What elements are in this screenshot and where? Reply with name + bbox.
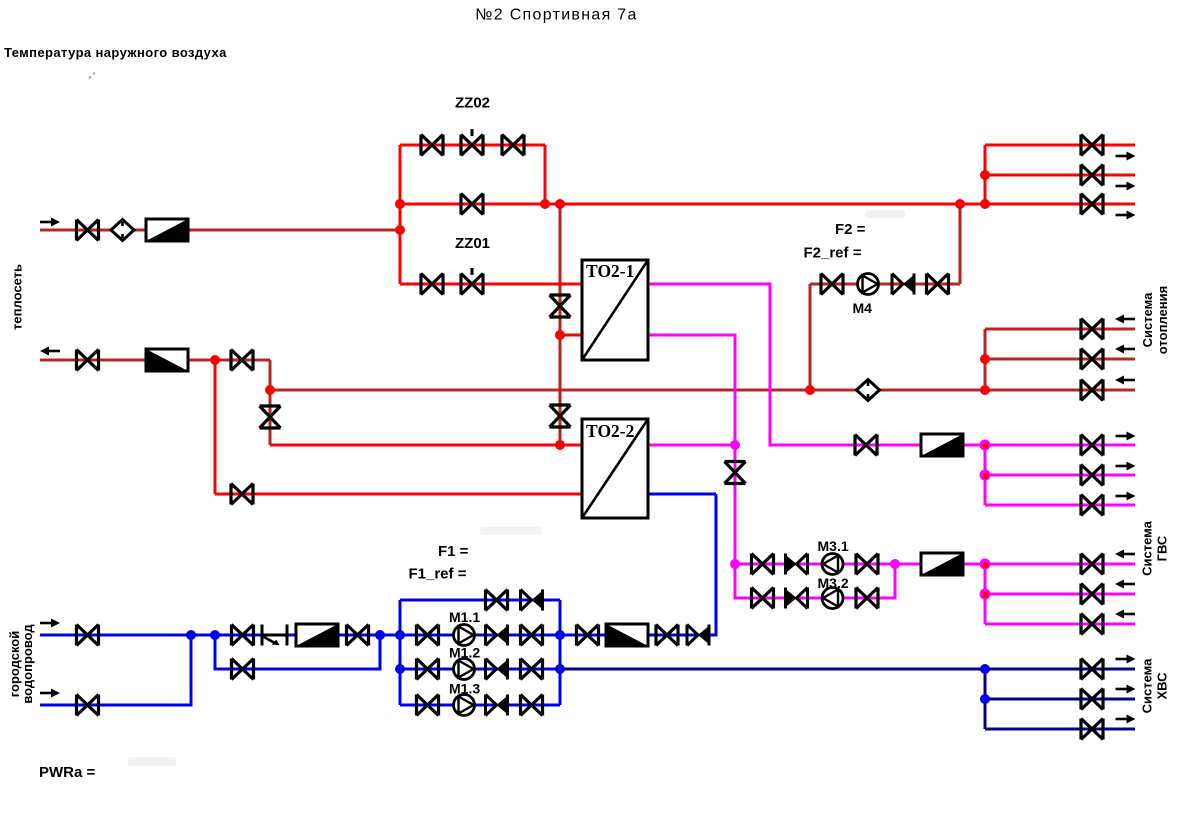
svg-text:Система: Система [1140, 520, 1155, 575]
label городской водопровод [7, 624, 35, 704]
valve riser x=560 lower [550, 405, 571, 427]
svg-text:ХВС: ХВС [1155, 672, 1170, 700]
arrow ХВС out 2 [1116, 685, 1136, 694]
node ГВС return manifold mid [980, 589, 991, 600]
wire M3.2 row y=598 [735, 564, 895, 598]
node M4 riser bottom [805, 385, 815, 395]
valve M4 discharge [927, 274, 949, 295]
meter diamond return header [857, 380, 880, 401]
check valve F1 outlet [687, 625, 711, 646]
wire M1.3 row y=705 [400, 704, 560, 707]
node ГВС supply manifold top [980, 440, 991, 451]
valve M1.3 suction [417, 695, 439, 716]
node ZZ riser / supply [395, 199, 405, 209]
valve city water inlet 2 [77, 695, 99, 716]
node ZZ02 join [540, 199, 550, 209]
valve main supply [461, 194, 483, 215]
wire теплосеть return y=360 [40, 359, 270, 362]
wire heating return branch y=359 [985, 358, 1135, 361]
svg-text:M1.2: M1.2 [449, 645, 480, 661]
valve M3.2 left [752, 588, 774, 609]
valve M3.1 right [856, 554, 878, 575]
wire TO2-2 outlet y=445 [648, 444, 735, 447]
svg-text:№2 Спортивная 7а: №2 Спортивная 7а [475, 7, 637, 24]
wire M3.1 row y=564 [735, 563, 921, 566]
wire ГВС return branch y=594 [985, 593, 1135, 596]
arrow heating return in 1 [1115, 315, 1135, 324]
svg-text:F2 =: F2 = [835, 221, 866, 238]
arrow ГВС supply out 3 [1116, 492, 1136, 501]
node return filter [210, 355, 220, 365]
arrow ГВС return in 3 [1115, 610, 1135, 619]
node M3 suction header [730, 559, 740, 569]
wire M4 branch y=284 [810, 283, 960, 286]
valve ХВС branch 2 [1081, 689, 1103, 710]
valve ZZ02 middle [461, 129, 483, 156]
valve M3.2 right [856, 588, 878, 609]
heat exchanger TO2-1 [582, 260, 648, 360]
node ZZ riser / input [395, 225, 405, 235]
valve ГВС supply branch 1 [1081, 435, 1103, 456]
check valve M1.2 [486, 659, 510, 680]
valve after filter [347, 625, 369, 646]
svg-text:F2_ref =: F2_ref = [804, 245, 862, 262]
flow sensor city water [262, 625, 287, 646]
wire ГВС return branch y=624 [985, 623, 1135, 626]
node ХВС manifold mid [980, 694, 990, 704]
node TO2-1 lower inlet [555, 330, 565, 340]
svg-text:F1 =: F1 = [438, 543, 469, 560]
valve before flow sensor [232, 625, 254, 646]
valve F1 outlet [577, 625, 599, 646]
node return header start [265, 385, 275, 395]
node city water join [186, 630, 196, 640]
node return manifold mid [980, 354, 990, 364]
node bypass start [210, 630, 220, 640]
pump M1.1 [454, 625, 475, 646]
wire ХВС branch y=699 [985, 698, 1135, 701]
pump M3.1 [822, 554, 843, 575]
wire теплосеть supply input y=230 [40, 229, 400, 232]
node F1 right riser y=669 [555, 664, 565, 674]
wire city water input y=635 [40, 634, 400, 637]
heat exchanger TO2-2 [582, 419, 648, 518]
valve ГВС supply branch 2 [1081, 465, 1103, 486]
arrow heating return in 2 [1115, 345, 1135, 354]
svg-text:M1.3: M1.3 [449, 681, 480, 697]
valve M3.1 left [752, 554, 774, 575]
valve M1.2 suction [417, 659, 439, 680]
wire M4 riser x=810 [809, 284, 812, 390]
node F1 left riser y=635 [395, 630, 405, 640]
pump M1.2 [454, 659, 475, 680]
ghost marks [89, 72, 96, 79]
wire heating supply manifold riser x=985 [984, 145, 987, 204]
wire M1.2 row y=669 [400, 668, 560, 671]
valve branch y=494 [231, 484, 253, 505]
wire ГВС supply branch y=505 [985, 504, 1135, 507]
meter diamond теплосеть supply [111, 220, 134, 241]
valve riser x=270 [260, 406, 281, 428]
node M4 riser top [955, 199, 965, 209]
arrow ГВС return in 1 [1115, 550, 1135, 559]
valve теплосеть return outlet [77, 350, 99, 371]
pump M1.3 [454, 695, 475, 716]
svg-text:M3.1: M3.1 [818, 538, 849, 554]
arrow heating supply out 2 [1116, 182, 1136, 191]
valve ZZ01 left [421, 274, 443, 295]
wire ГВС return manifold riser x=985 [984, 564, 987, 624]
node bypass end [375, 630, 385, 640]
node TO2-2 outlet join [730, 440, 740, 450]
valve ГВС supply y=445 [855, 435, 877, 456]
valve after F1 filter [656, 625, 678, 646]
arrow flow in city water 2 [40, 689, 60, 698]
wire TO2-1 lower outlet y=335 riser x=735 [648, 335, 735, 564]
svg-text:Система: Система [1140, 292, 1155, 347]
wire ХВС branch y=729 [985, 728, 1135, 731]
arrow flow in city water 1 [40, 619, 60, 628]
valve ХВС branch 1 [1081, 659, 1103, 680]
filter теплосеть return [146, 349, 188, 371]
arrow ГВС return in 2 [1115, 580, 1135, 589]
arrow ХВС out 1 [1116, 655, 1136, 664]
wire ZZ01 branch y=284 to TO2-1 [400, 283, 582, 286]
valve heating return branch 3 [1081, 380, 1103, 401]
valve heating supply branch 1 [1081, 135, 1103, 156]
node ГВС supply manifold mid [980, 470, 991, 481]
wire M1.1 row y=635 [400, 634, 560, 637]
valve heating supply branch 2 [1081, 165, 1103, 186]
valve ГВС return branch 2 [1081, 584, 1103, 605]
check valve M3.2 [784, 588, 808, 609]
wire ZZ02 bypass branch y=145 [400, 144, 545, 147]
pump M3.2 [822, 588, 843, 609]
check valve F1 top row [521, 590, 545, 611]
valve ZZ01 right [461, 268, 483, 295]
label Система ХВС [1140, 658, 1170, 713]
node supply manifold mid [980, 170, 990, 180]
svg-text:Температура наружного воздуха: Температура наружного воздуха [4, 45, 227, 60]
wire ZZ riser x=545 [544, 145, 547, 204]
wire F1 left riser x=400 [399, 600, 402, 705]
wire ГВС supply branch y=475 [985, 474, 1135, 477]
valve M1.1 discharge [521, 625, 543, 646]
pump M4 [858, 274, 879, 295]
arrow ГВС supply out 2 [1116, 462, 1136, 471]
wire F1 right riser x=560 [559, 600, 562, 705]
wire heating supply branch y=204 [985, 203, 1135, 206]
valve ZZ02 left [421, 135, 443, 156]
node F1 left riser y=669 [395, 664, 405, 674]
arrow flow out теплосеть return [40, 347, 60, 356]
label теплосеть [10, 264, 25, 330]
wire heating return branch y=329 [985, 328, 1135, 331]
wire riser x=215 [214, 360, 217, 494]
arrow heating supply out 1 [1116, 152, 1136, 161]
wire TO2-2 cold inlet y=494 [648, 493, 716, 496]
wire ГВС supply filter to manifold y=445 [963, 444, 985, 447]
svg-text:ТО2-1: ТО2-1 [586, 261, 634, 281]
arrow heating return in 3 [1115, 376, 1135, 385]
svg-text:M4: M4 [853, 300, 873, 316]
arrow heating supply out 3 [1116, 211, 1136, 220]
wire ХВС manifold riser x=985 [984, 669, 987, 729]
wire ГВС return filter to manifold y=564 [963, 563, 985, 566]
wire F1 outlet y=635 to riser x=716 [560, 494, 716, 635]
check valve M1.3 [486, 695, 510, 716]
svg-text:M3.2: M3.2 [818, 575, 849, 591]
svg-text:ZZ01: ZZ01 [455, 235, 490, 252]
valve теплосеть supply inlet [77, 220, 99, 241]
node F1 right riser y=635 [555, 630, 565, 640]
arrow flow in теплосеть supply [40, 218, 60, 227]
check valve M3.1 [784, 554, 808, 575]
valve M1.2 discharge [521, 659, 543, 680]
wire branch y=445 to TO2-2 upper port [270, 444, 582, 447]
node return manifold bottom [980, 385, 990, 395]
node supply manifold top [980, 199, 990, 209]
check valve M4 [892, 274, 916, 295]
svg-text:теплосеть: теплосеть [10, 264, 25, 330]
filter ГВС return [921, 553, 963, 575]
node ХВС manifold top [980, 664, 990, 674]
wire bypass with valve y=669 [215, 635, 380, 669]
wire heating supply branch y=145 [985, 144, 1135, 147]
valve city water inlet 1 [77, 625, 99, 646]
valve ZZ02 right [502, 135, 524, 156]
wire city water input y=705 [40, 635, 191, 705]
wire heating return manifold riser x=985 [984, 329, 987, 390]
svg-text:отопления: отопления [1155, 286, 1170, 354]
arrow ХВС out 3 [1116, 715, 1136, 724]
wire ГВС supply manifold riser x=985 [984, 445, 987, 505]
svg-text:Система: Система [1140, 658, 1155, 713]
svg-text:F1_ref =: F1_ref = [409, 566, 467, 583]
node TO2-2 upper inlet [555, 440, 565, 450]
wire stub to TO2-1 lower port y=335 [560, 334, 582, 337]
node M3 discharge join [890, 559, 900, 569]
wire F1 top row y=600 [400, 599, 560, 602]
valve ГВС return branch 3 [1081, 614, 1103, 635]
valve F1 top row [486, 590, 508, 611]
valve ХВС branch 3 [1081, 719, 1103, 740]
valve M1.3 discharge [521, 695, 543, 716]
wire main supply y=204 [400, 203, 985, 206]
wire riser x=560 from supply to TO2-2 [559, 204, 562, 445]
valve теплосеть return [231, 350, 253, 371]
filter F1 outlet [606, 624, 648, 646]
wire TO2-1 outlet y=284 to riser x=770 [648, 284, 921, 445]
arrow ГВС supply out 1 [1116, 432, 1136, 441]
wire M4 riser x=960 [959, 204, 962, 284]
wire ХВС branch y=669 [985, 668, 1135, 671]
valve ГВС supply branch 3 [1081, 495, 1103, 516]
wire ГВС supply branch y=445 [985, 444, 1135, 447]
wire heating return branch y=390 [985, 389, 1135, 392]
valve heating return branch 1 [1081, 319, 1103, 340]
node ГВС return manifold top [980, 559, 991, 570]
valve heating supply branch 3 [1081, 194, 1103, 215]
check valve M1.1 [486, 625, 510, 646]
valve M1.1 suction [417, 625, 439, 646]
wire branch y=494 to TO2-2 lower port [215, 493, 582, 496]
wire riser x=270 return to TO2-2 line [269, 360, 272, 445]
svg-text:ZZ02: ZZ02 [455, 95, 490, 112]
node riser x=560 top [555, 199, 565, 209]
valve riser x=560 upper [550, 295, 571, 317]
svg-text:PWRa =: PWRa = [39, 764, 96, 781]
svg-text:ГВС: ГВС [1155, 535, 1170, 561]
valve heating return branch 2 [1081, 349, 1103, 370]
svg-text:ТО2-2: ТО2-2 [586, 421, 634, 441]
svg-text:M1.1: M1.1 [449, 609, 480, 625]
wire ХВС main y=669 [560, 668, 985, 671]
valve ГВС return branch 1 [1081, 554, 1103, 575]
label Система ГВС [1140, 520, 1170, 575]
wire ZZ riser x=400 [399, 145, 402, 284]
svg-text:водопровод: водопровод [20, 624, 35, 704]
filter теплосеть supply [146, 219, 188, 241]
valve bypass y=669 [232, 659, 254, 680]
wire ГВС return branch y=564 [985, 563, 1135, 566]
wire heating supply branch y=175 [985, 174, 1135, 177]
filter ГВС supply [921, 434, 963, 456]
wire main return header y=390 [270, 389, 985, 392]
label Система отопления [1140, 286, 1170, 354]
valve M4 suction [821, 274, 843, 295]
filter city water [296, 624, 338, 646]
valve riser x=735 [725, 462, 746, 484]
